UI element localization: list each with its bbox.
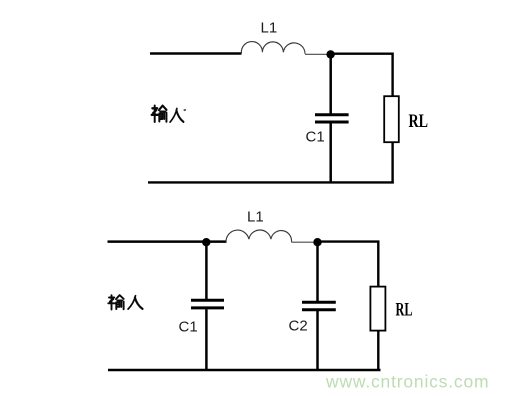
svg-text:C2: C2	[289, 318, 308, 335]
svg-text:C1: C1	[306, 129, 325, 146]
svg-text:L1: L1	[247, 209, 264, 226]
svg-text:C1: C1	[179, 319, 198, 336]
svg-text:RL: RL	[396, 300, 413, 321]
svg-text:RL: RL	[409, 112, 429, 132]
svg-text:L1: L1	[261, 20, 278, 37]
svg-text:www.cntronics.com: www.cntronics.com	[325, 372, 489, 392]
